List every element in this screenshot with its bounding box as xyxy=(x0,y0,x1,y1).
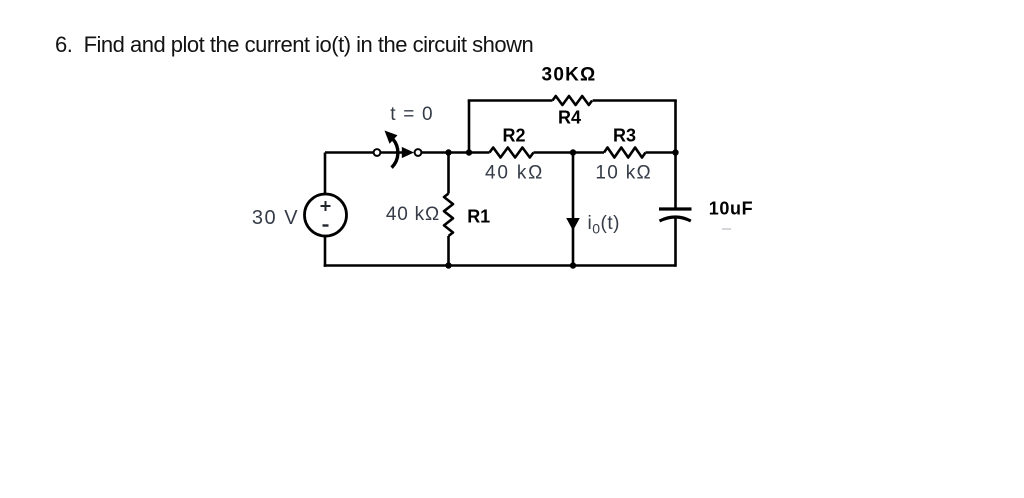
svg-text:R3: R3 xyxy=(613,126,636,146)
wire: io branch vertical xyxy=(572,153,575,266)
svg-text:10 kΩ: 10 kΩ xyxy=(595,163,652,184)
capacitor C1 bottom plate (curved) xyxy=(660,217,691,221)
switch blade arrowhead xyxy=(402,147,414,158)
node: R1 top junction xyxy=(445,149,451,155)
node: center junction (R2/R3/io) xyxy=(570,149,576,155)
node: top-branch left junction xyxy=(466,149,472,155)
svg-text:30KΩ: 30KΩ xyxy=(542,65,597,86)
voltage source plus sign xyxy=(321,201,331,211)
switch motion arrowhead xyxy=(385,131,398,144)
resistor R4 zigzag xyxy=(553,96,593,105)
switch SW (t=0) left terminal xyxy=(374,149,381,156)
switch motion arc xyxy=(392,139,398,168)
wire: R3 to right node xyxy=(646,151,676,154)
resistor R1 zigzag (vertical) xyxy=(444,194,453,237)
wire: top branch left vertical xyxy=(468,101,471,153)
capacitor C1 top plate xyxy=(659,207,692,210)
wire: capacitor top lead xyxy=(674,153,677,209)
wire: top branch right vertical xyxy=(674,101,677,153)
wire: bottom rail xyxy=(324,264,676,267)
svg-text:10uF: 10uF xyxy=(709,199,753,219)
svg-text:R1: R1 xyxy=(467,207,490,227)
node: right junction (top branch / cap) xyxy=(672,149,678,155)
svg-text:t = 0: t = 0 xyxy=(390,104,434,125)
current arrow io(t) head xyxy=(566,218,580,231)
wire: source bottom lead xyxy=(324,236,327,267)
wire: capacitor bottom lead xyxy=(674,218,677,267)
wire: R1 bottom lead xyxy=(447,236,450,266)
wire: top branch left horizontal xyxy=(468,99,553,102)
switch blade wire xyxy=(381,151,404,154)
wire: R2 to center node xyxy=(534,151,605,154)
svg-text:40 kΩ: 40 kΩ xyxy=(386,204,440,225)
wire: switch to R2 (through nodes) xyxy=(422,151,490,154)
voltage source minus sign xyxy=(323,224,329,226)
voltage source V1 circle xyxy=(305,194,347,236)
node: io bottom junction xyxy=(570,262,576,268)
node: R1 bottom junction xyxy=(445,262,451,268)
svg-text:40 kΩ: 40 kΩ xyxy=(485,163,544,184)
svg-text:R2: R2 xyxy=(502,126,525,146)
wire: source top lead xyxy=(324,153,327,195)
svg-text:30 V: 30 V xyxy=(252,207,299,229)
artifact: faint smudge right of 10uF xyxy=(722,228,731,230)
svg-text:6. Find and plot the current: 6. Find and plot the current io(t) in th… xyxy=(55,32,533,57)
wire: source top to switch left terminal xyxy=(325,151,374,154)
wire: R1 top lead xyxy=(447,153,450,194)
wire: top branch right horizontal xyxy=(593,99,677,102)
resistor R3 zigzag xyxy=(604,148,646,158)
switch SW right terminal xyxy=(415,149,422,156)
svg-text:R4: R4 xyxy=(558,108,581,128)
resistor R2 zigzag xyxy=(490,148,534,158)
